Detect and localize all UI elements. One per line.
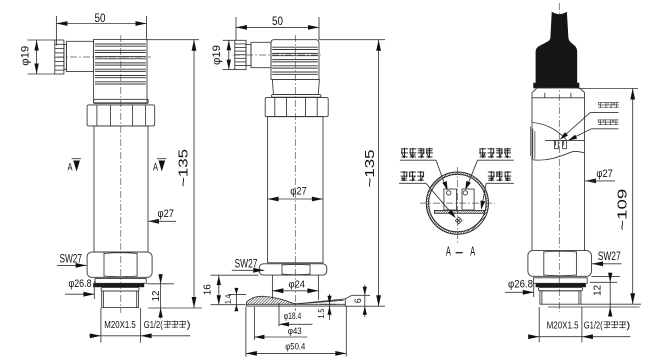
- svg-text:G1/2(: G1/2(: [584, 320, 603, 332]
- svg-text:φ24: φ24: [289, 279, 306, 291]
- svg-text:φ19: φ19: [20, 46, 32, 66]
- svg-text:M20X1.5: M20X1.5: [547, 320, 579, 332]
- svg-text:A: A: [68, 162, 73, 174]
- svg-text:~135: ~135: [362, 150, 377, 188]
- svg-text:50: 50: [95, 11, 106, 25]
- svg-text:16: 16: [202, 284, 213, 295]
- svg-text:φ27: φ27: [596, 168, 613, 180]
- svg-text:A: A: [470, 243, 475, 258]
- svg-text:): ): [626, 320, 630, 332]
- svg-text:): ): [187, 319, 191, 331]
- svg-text:50: 50: [272, 14, 283, 28]
- svg-text:φ43: φ43: [288, 326, 302, 337]
- svg-text:A: A: [153, 162, 158, 174]
- svg-text:1.4: 1.4: [223, 294, 233, 304]
- svg-text:SW27: SW27: [60, 252, 83, 266]
- svg-text:6: 6: [353, 298, 364, 303]
- svg-text:SW27: SW27: [598, 249, 621, 263]
- svg-text:A: A: [446, 243, 451, 258]
- svg-text:~109: ~109: [615, 189, 630, 231]
- svg-text:φ27: φ27: [158, 208, 175, 220]
- svg-text:φ19: φ19: [211, 45, 223, 65]
- svg-text:M20X1.5: M20X1.5: [104, 319, 136, 331]
- svg-text:φ50.4: φ50.4: [285, 342, 305, 353]
- svg-text:φ18.4: φ18.4: [284, 311, 302, 322]
- svg-text:12: 12: [151, 290, 162, 301]
- svg-text:12: 12: [593, 284, 604, 295]
- svg-text:φ26.8: φ26.8: [69, 278, 92, 290]
- svg-text:~135: ~135: [175, 149, 190, 187]
- svg-text:φ26.8: φ26.8: [508, 279, 533, 291]
- svg-text:G1/2(: G1/2(: [144, 319, 163, 331]
- svg-text:1.5: 1.5: [316, 308, 326, 318]
- svg-text:φ27: φ27: [290, 186, 307, 198]
